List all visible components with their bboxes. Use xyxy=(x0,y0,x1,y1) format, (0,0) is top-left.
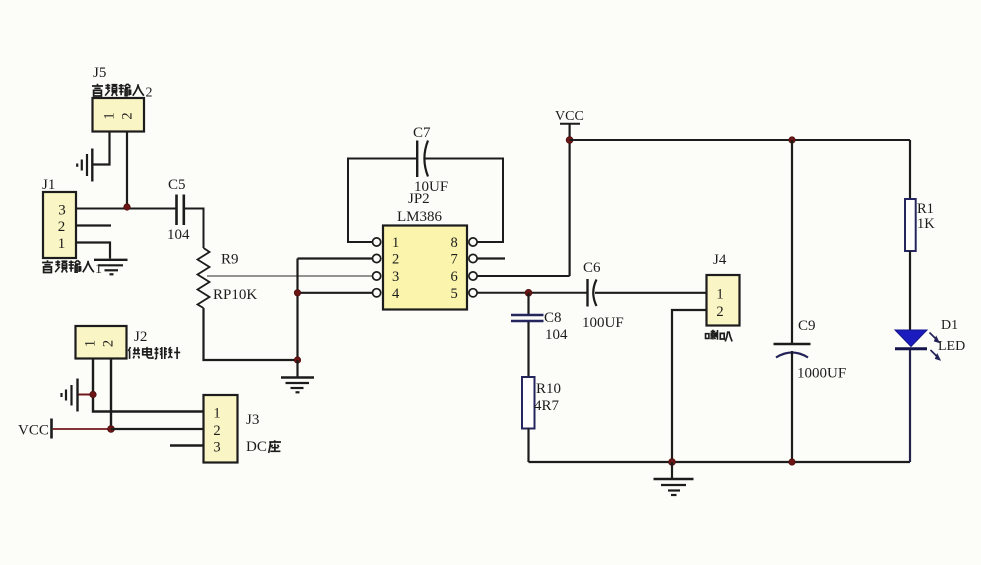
pin 2 xyxy=(373,254,381,262)
resistor R9 (pot RP10K) xyxy=(198,248,210,308)
svg-text:3: 3 xyxy=(392,269,399,285)
diode D1 LED xyxy=(895,330,941,360)
junction C9 bottom xyxy=(789,459,795,465)
svg-text:104: 104 xyxy=(545,327,568,343)
junction pot ground xyxy=(294,357,300,363)
svg-text:1: 1 xyxy=(716,287,723,303)
wire J5 pin1 to ground xyxy=(93,132,110,165)
ground (main) xyxy=(654,462,694,495)
label 音频输入2 xyxy=(92,84,152,101)
wire R10 to bottom rail xyxy=(527,429,529,463)
pin 4 xyxy=(373,289,381,297)
wire pin 7 stub xyxy=(477,257,505,259)
power VCC (top) xyxy=(555,109,584,124)
svg-text:2: 2 xyxy=(716,304,723,320)
svg-text:2: 2 xyxy=(58,219,66,235)
wire down to C8 xyxy=(527,293,529,314)
label 音频输入1 xyxy=(42,260,102,277)
svg-text:1: 1 xyxy=(213,406,220,422)
svg-text:2: 2 xyxy=(120,112,136,119)
wire R9 bottom to ground node xyxy=(204,308,298,360)
junction VCC rail xyxy=(566,137,573,144)
svg-text:R10: R10 xyxy=(536,381,561,397)
svg-text:8: 8 xyxy=(451,235,458,251)
capacitor C6 xyxy=(588,279,597,307)
wire to U1 pin2 xyxy=(298,257,373,259)
pin 6 xyxy=(469,272,477,280)
svg-text:J4: J4 xyxy=(713,252,727,268)
svg-text:1: 1 xyxy=(392,235,399,251)
label DC座 xyxy=(246,439,281,455)
ground (J1) xyxy=(94,260,128,275)
svg-text:1: 1 xyxy=(58,236,66,252)
connector J1 xyxy=(43,192,76,258)
pin 1 xyxy=(373,238,381,246)
svg-text:2: 2 xyxy=(101,340,117,347)
wire top rail xyxy=(570,139,910,141)
junction ground tap xyxy=(669,459,676,466)
wire pin 6 to VCC xyxy=(477,275,570,277)
svg-text:C6: C6 xyxy=(583,260,601,276)
svg-text:J3: J3 xyxy=(246,412,259,428)
ground (J5, left-facing) xyxy=(77,149,92,182)
junction J2 ground xyxy=(90,391,96,397)
wire J4 pin2 to ground rail xyxy=(672,310,707,462)
junction pin4 xyxy=(294,290,300,296)
svg-text:J2: J2 xyxy=(134,329,147,345)
capacitor C8 xyxy=(511,315,544,321)
svg-text:VCC: VCC xyxy=(18,423,49,439)
wire to J3 pin2 xyxy=(111,428,204,430)
capacitor C5 xyxy=(177,195,184,226)
wire pin 5 to C6 xyxy=(477,292,587,294)
power VCC (left) xyxy=(18,419,52,439)
svg-text:3: 3 xyxy=(213,440,220,456)
svg-text:R1: R1 xyxy=(917,201,934,217)
wire R9 wiper to U1 pin3 xyxy=(207,275,373,277)
wire J3 pin3 stub xyxy=(170,444,204,446)
svg-text:J5: J5 xyxy=(93,65,106,81)
resistor R10 xyxy=(522,377,535,429)
svg-text:3: 3 xyxy=(58,203,66,219)
svg-text:VCC: VCC xyxy=(555,109,584,124)
svg-text:1: 1 xyxy=(102,112,118,119)
svg-text:2: 2 xyxy=(213,423,220,439)
svg-text:1000UF: 1000UF xyxy=(797,366,846,382)
op-amp U1 LM386 JP2 xyxy=(383,226,467,310)
svg-text:4R7: 4R7 xyxy=(534,398,560,414)
svg-text:D1: D1 xyxy=(941,318,958,333)
wire C8 to R10 xyxy=(527,322,529,377)
svg-text:6: 6 xyxy=(451,269,458,285)
svg-text:5: 5 xyxy=(451,286,458,302)
svg-text:4: 4 xyxy=(392,286,400,302)
svg-text:C7: C7 xyxy=(413,125,431,141)
capacitor C7 xyxy=(417,141,428,178)
ground (J2, left-facing) xyxy=(62,379,78,412)
junction C9 top xyxy=(789,137,795,143)
junction C8 tap xyxy=(525,289,532,296)
svg-text:2: 2 xyxy=(392,252,399,268)
svg-text:R9: R9 xyxy=(221,252,239,268)
svg-text:J1: J1 xyxy=(42,177,55,193)
wire J5 pin2 down to node A xyxy=(126,132,128,207)
connector J3 xyxy=(204,395,238,463)
svg-text:C5: C5 xyxy=(168,177,186,193)
connector J5 xyxy=(93,98,145,132)
wire J1 pin1 to ground xyxy=(76,243,110,259)
wire C7 right to pin 8 xyxy=(424,159,503,243)
pin 8 xyxy=(469,238,477,246)
wire J2 pin1 down to J3 pin1 xyxy=(93,359,204,412)
wire pin1 to C7 left xyxy=(348,159,416,243)
wire R1 branch top xyxy=(909,140,911,199)
svg-text:7: 7 xyxy=(451,252,458,268)
svg-text:RP10K: RP10K xyxy=(213,287,257,303)
connector J4 xyxy=(707,275,740,326)
junction VCC / J2 pin2 xyxy=(108,426,115,433)
capacitor C9 xyxy=(774,344,811,358)
wire to U1 pin4 xyxy=(298,292,373,294)
svg-text:DC: DC xyxy=(246,439,267,455)
wire R1 to LED xyxy=(909,251,911,330)
label 喇叭 xyxy=(706,330,733,342)
svg-text:1K: 1K xyxy=(917,216,935,232)
ground (pot) xyxy=(281,360,314,392)
label 供电排针 xyxy=(128,347,180,359)
wire LED to bottom rail xyxy=(909,350,911,462)
svg-text:104: 104 xyxy=(167,227,190,243)
pin 7 xyxy=(469,254,477,262)
connector J2 xyxy=(76,326,127,359)
wire VCC vertical xyxy=(568,124,570,276)
resistor R1 xyxy=(905,199,916,251)
svg-text:LM386: LM386 xyxy=(397,209,443,225)
svg-text:LED: LED xyxy=(938,339,965,354)
wire J1 pin3 to node A and C5 xyxy=(76,208,176,210)
svg-text:100UF: 100UF xyxy=(582,315,624,331)
pin 3 xyxy=(373,272,381,280)
wire bottom rail xyxy=(529,461,911,463)
wire C9 bottom xyxy=(791,351,793,462)
svg-text:1: 1 xyxy=(83,340,99,347)
svg-text:C9: C9 xyxy=(798,318,816,334)
svg-text:10UF: 10UF xyxy=(414,179,448,195)
node A junction xyxy=(124,204,130,210)
wire J1 pin2 stub xyxy=(76,224,111,226)
wire J2 pin2 down xyxy=(110,359,112,430)
wire VCC to J2 pin2 (maroon) xyxy=(53,428,111,430)
svg-text:2: 2 xyxy=(146,86,153,101)
wire U1 pin2 branch vertical xyxy=(296,259,298,361)
pin 5 xyxy=(469,289,477,297)
wire C5 to R9 top xyxy=(185,209,204,249)
svg-text:C8: C8 xyxy=(544,310,562,326)
wire C6 to J4 pin1 xyxy=(595,292,706,294)
wire ground tap (maroon) xyxy=(78,394,93,396)
wire C9 vertical top xyxy=(791,140,793,343)
